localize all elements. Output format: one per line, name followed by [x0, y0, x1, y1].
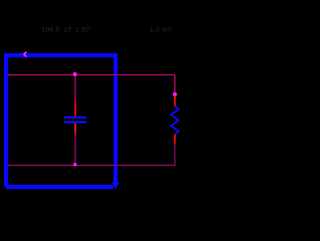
node dot: top junction	[73, 72, 77, 76]
resistor R1 bottom lead (red)	[0, 0, 1, 1]
wire: capacitor branch upper	[74, 75, 76, 101]
current direction arrow on loop top edge (magenta chevron)	[24, 52, 26, 57]
wire: right vertical upper (to resistor)	[174, 75, 176, 96]
loop arrowhead (points down, bottom-right)	[112, 182, 120, 189]
wire: bottom net (horizontal)	[8, 164, 176, 166]
loop left+top+right edges	[6, 55, 116, 187]
resistor R1 top lead (red)	[174, 96, 176, 107]
wire: right vertical lower	[174, 145, 176, 165]
wire: capacitor branch lower	[74, 136, 76, 165]
resistor R1 zigzag	[171, 106, 179, 135]
svg-text:100.0' 10' 1.50': 100.0' 10' 1.50'	[42, 28, 91, 34]
svg-text:1.0 mV: 1.0 mV	[150, 28, 172, 34]
node dot: bottom junction	[73, 163, 77, 167]
capacitor C1 bottom lead (red)	[0, 0, 1, 1]
capacitor C1 plates	[64, 116, 87, 123]
loop bottom edge	[6, 185, 113, 189]
node dot: above resistor	[173, 92, 177, 96]
wire: top net (horizontal)	[8, 74, 175, 76]
current loop (blue rectangle)	[6, 55, 116, 187]
capacitor C1 top lead (red)	[0, 0, 1, 1]
